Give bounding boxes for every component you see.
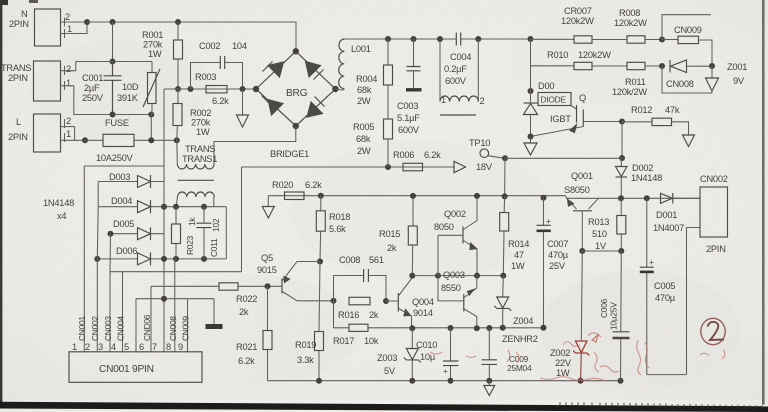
wire HV bus y39 bbox=[345, 38, 531, 40]
resistor R016 2k bbox=[338, 297, 379, 320]
wire pin4 bbox=[122, 272, 124, 352]
right scan edge line bbox=[763, 0, 764, 404]
ground arrow left of R020 bbox=[262, 196, 274, 218]
node R015 bottom / base bus bbox=[409, 273, 415, 279]
node D006 left on pin2 bbox=[94, 256, 100, 262]
border mark top-left bbox=[0, 0, 8, 5]
resistor R023 1k bbox=[172, 207, 198, 259]
node TP10 bbox=[502, 155, 508, 161]
wire varistor bottom to fuse node bbox=[150, 115, 152, 141]
diode D004 bbox=[98, 196, 164, 213]
red scribble marks bbox=[430, 333, 725, 381]
wire negative bus y167 bbox=[242, 166, 455, 168]
node bridge top bbox=[293, 48, 299, 54]
wire TRANS pin1 down bbox=[61, 86, 113, 115]
capacitor C004 0.2uF 600V bbox=[444, 33, 471, 87]
node Q001 base bottom bbox=[579, 248, 585, 254]
wire Q002 base column bbox=[438, 235, 464, 301]
node rail C009 bbox=[486, 378, 492, 384]
node D005 left on pin3 bbox=[108, 231, 114, 237]
node C001 bottom bbox=[110, 112, 116, 118]
node N junction bbox=[84, 19, 90, 25]
bridge rectifier BRG BRIDGE1 bbox=[256, 51, 335, 159]
node Z004 bottom bbox=[500, 325, 506, 331]
node R005 bottom bbox=[385, 164, 391, 170]
node fuse right bbox=[148, 137, 154, 143]
wire TRANS pin2 to node bbox=[61, 62, 153, 71]
node transformer primary left bbox=[174, 137, 180, 143]
wire pin5 ground link y298.7 bbox=[136, 298, 214, 300]
node zener column right bbox=[709, 63, 715, 69]
node C007 bottom bbox=[541, 325, 547, 331]
wire L pin2 stub bbox=[61, 127, 75, 141]
ground arrow after R012 bbox=[683, 135, 695, 147]
capacitor C003 5.1uF 600V bbox=[397, 39, 422, 135]
wire pin3/pin4 link y271.7 bbox=[110, 271, 242, 273]
connector CN-N (N 2PIN) bbox=[9, 9, 72, 46]
node Q003 collector bottom bbox=[474, 325, 480, 331]
label DIODE boxed bbox=[538, 93, 571, 106]
ground arrow below R003 bbox=[237, 89, 249, 127]
node C003 top bbox=[411, 36, 417, 42]
wire R012 node down bbox=[621, 122, 623, 159]
node Q002/Q003 base column bbox=[435, 273, 441, 279]
wire pin6 bbox=[150, 286, 152, 352]
wire zener loop bbox=[662, 66, 712, 93]
resistor R018 5.6k bbox=[316, 196, 350, 262]
capacitor C005 470u bbox=[640, 198, 676, 374]
node R003 right / gnd tap bbox=[240, 86, 246, 92]
wire L pin1 stub bbox=[61, 139, 86, 141]
arrow out (to IGBT emitter) bbox=[454, 161, 466, 172]
wire D006 row to loop corner bbox=[164, 258, 226, 260]
transistor Q001 S8050 bbox=[564, 171, 599, 251]
pin numbers 1-9 bbox=[72, 342, 183, 352]
node D002 anode / bus bbox=[618, 195, 624, 201]
capacitor C006 10u25V (rotated label) bbox=[599, 251, 630, 381]
node bridge right bbox=[332, 86, 338, 92]
resistor R011 120k/2W bbox=[592, 62, 662, 97]
node Q5 base / R021 bbox=[265, 283, 271, 289]
wire bridge bottom return to transformer bbox=[214, 126, 296, 164]
node base-bus right end bbox=[500, 273, 506, 279]
bottom scan bar bbox=[0, 402, 768, 412]
diode D00 bbox=[524, 81, 555, 137]
wire C005/CN002 bottom link bbox=[647, 374, 687, 376]
resistor R002 270k 1W bbox=[173, 89, 211, 140]
wire AC line bus to bridge top bbox=[87, 22, 296, 51]
diode LL of bridge bbox=[268, 100, 283, 116]
node R016 right / Q004 base bbox=[383, 298, 389, 304]
node bridge bottom bbox=[293, 123, 299, 129]
node bridge left bbox=[253, 86, 259, 92]
resistor R008 120k2W bbox=[592, 8, 662, 43]
jumper CN009 bbox=[662, 25, 712, 66]
node rail ground tap bbox=[161, 296, 167, 302]
wire 18V rail y196 bbox=[268, 195, 566, 197]
node Q002 collector bbox=[474, 193, 480, 199]
node C001 top bbox=[110, 59, 116, 65]
wire pin1 loop y166 bbox=[84, 165, 164, 167]
node coil pin1 bbox=[437, 36, 443, 42]
diode D001 1N4007 bbox=[653, 193, 700, 233]
wire pin8 bbox=[174, 259, 176, 352]
wire cathode rail x164 bbox=[163, 89, 165, 352]
resistor R020 6.2k bbox=[272, 180, 322, 200]
node C011 top bbox=[201, 204, 207, 210]
border mark top small bbox=[29, 0, 38, 3]
wire fuse to transformer bbox=[134, 139, 177, 141]
node R018 top bbox=[318, 193, 324, 199]
node rail/D006 bbox=[161, 256, 167, 262]
node R011 right bbox=[659, 63, 665, 69]
resistor R010 120k2W bbox=[531, 50, 612, 70]
node rail C006 bbox=[618, 378, 624, 384]
wire zener bus y327.8 bbox=[412, 327, 543, 329]
node R004 top bbox=[385, 36, 391, 42]
resistor R015 2k bbox=[379, 196, 417, 276]
capacitor C009 25M04 bbox=[482, 328, 532, 381]
diode LR of bridge bbox=[307, 102, 323, 117]
ground arrow below IGBT bbox=[524, 137, 537, 156]
transistor Q IGBT bbox=[531, 93, 623, 137]
node rail C010 bbox=[448, 378, 454, 384]
zener Z003 5V bbox=[377, 328, 421, 381]
node Q004 emitter/Z003 bbox=[409, 325, 415, 331]
wire D004 row to R023/C011 bbox=[164, 206, 226, 208]
node C007 top bbox=[541, 195, 547, 201]
node C005 top bbox=[644, 195, 650, 201]
wire CN002 pin2 bbox=[687, 228, 701, 375]
wire bottom link C001 to varistor bbox=[113, 114, 152, 116]
zener Z002 22V 1W (red marked) bbox=[550, 251, 589, 381]
resistor R012 47k bbox=[622, 105, 689, 135]
wire D003 left leg down bbox=[97, 182, 99, 207]
node HV bus / CR007 column bbox=[528, 36, 534, 42]
node rail/D004 bbox=[161, 204, 167, 210]
test point TP10 18V bbox=[469, 138, 505, 172]
capacitor C002 104 bbox=[191, 41, 247, 89]
wire pin3 bbox=[109, 234, 112, 352]
wire loop right side x226 bbox=[225, 207, 227, 259]
node R012 left bbox=[619, 119, 625, 125]
wire bottom rail y380.7 bbox=[268, 380, 622, 382]
node CN009 left bbox=[659, 37, 665, 43]
ground arrow below rail bbox=[484, 381, 495, 396]
zener Z004 ZENHR2 bbox=[494, 276, 538, 344]
chassis ground bar bbox=[206, 299, 223, 327]
wire drop to C001 bbox=[112, 22, 114, 62]
node IGBT emitter gnd bbox=[528, 134, 534, 140]
node C008/R016 left bbox=[331, 298, 337, 304]
diode UR of bridge bbox=[306, 62, 321, 78]
wire 18V bus y158 bbox=[505, 157, 622, 159]
node L junction bbox=[82, 137, 88, 143]
resistor R005 68k 2W bbox=[353, 119, 393, 167]
resistor R003 6.2k bbox=[195, 72, 229, 106]
transistor Q004 9014 bbox=[398, 278, 434, 329]
node C010 top bbox=[448, 325, 454, 331]
wire base link y251 bbox=[582, 250, 621, 252]
resistor R022 2k bbox=[151, 283, 282, 317]
resistor R019 3.3k bbox=[295, 262, 324, 381]
wire pin2 bbox=[96, 207, 99, 352]
node rail Z003 bbox=[409, 378, 415, 384]
resistor R006 6.2k bbox=[393, 150, 441, 171]
node D00 top bbox=[528, 88, 534, 94]
wire N pin1 stub bbox=[61, 22, 88, 34]
resistor R014 47 1W bbox=[500, 196, 530, 275]
diode D006 bbox=[97, 246, 164, 265]
capacitor C010 10u bbox=[416, 328, 459, 381]
transistor Q003 8550 bbox=[441, 270, 477, 329]
wire secondary right pin bbox=[213, 197, 215, 207]
node R013 bottom bbox=[618, 248, 624, 254]
diode D002 1N4148 bbox=[616, 158, 663, 198]
resistor CR007 120k2W bbox=[531, 6, 595, 43]
node rail R019 bbox=[316, 378, 322, 384]
node C009 top bbox=[486, 325, 492, 331]
wire HV column x530 bbox=[530, 39, 532, 102]
node C002 left leg bbox=[188, 86, 194, 92]
node R001/R002 bbox=[175, 86, 181, 92]
node C011 bottom bbox=[201, 256, 207, 262]
label 1N4148 x4 bbox=[43, 198, 74, 221]
transistor Q002 8050 bbox=[434, 196, 477, 276]
node R014 top column bbox=[502, 193, 508, 199]
border line left edge bbox=[0, 0, 2, 403]
diode CN008 bbox=[666, 60, 712, 89]
node TP bus right bbox=[619, 155, 625, 161]
capacitor C008 561 bbox=[334, 255, 387, 301]
wire mid rail y89 bbox=[164, 88, 256, 90]
wire L to fuse bbox=[85, 139, 103, 141]
ground arrow Z001 bbox=[706, 62, 748, 91]
node R023 bottom bbox=[173, 256, 179, 262]
node R015 top bbox=[410, 193, 416, 199]
red circled 2 stamp bbox=[701, 318, 725, 344]
fuse F1 10A250V bbox=[96, 118, 134, 163]
wire pin9 bbox=[187, 299, 189, 352]
resistor R021 6.2k bbox=[236, 286, 272, 380]
wire base to Q004 bbox=[386, 300, 398, 302]
transistor Q5 9015 bbox=[257, 253, 320, 301]
node bus x178 bbox=[175, 19, 181, 25]
node Q002 emitter / Q003 emitter bbox=[474, 273, 480, 279]
induction coil (pan coil) bbox=[440, 39, 485, 115]
wire stub up-right from node bbox=[662, 15, 711, 40]
node varistor bottom bbox=[148, 112, 154, 118]
wire N pin2 stub bbox=[61, 21, 88, 23]
node coil pin2 bbox=[475, 36, 481, 42]
wire riser x241.5 to negative bus bbox=[241, 167, 243, 272]
resistor R017 10k bbox=[333, 301, 412, 346]
inductor L001 bbox=[335, 39, 370, 90]
capacitor C001 bbox=[82, 62, 122, 115]
capacitor C011 102 bbox=[197, 207, 222, 259]
resistor R004 68k 2W bbox=[356, 39, 393, 119]
capacitor C007 470u 25V bbox=[537, 198, 569, 328]
wire base bus y275.6 bbox=[412, 275, 503, 277]
node Q5 emitter/R018/R019 bbox=[317, 259, 323, 265]
rotated pin labels CN001..CN009 bbox=[77, 314, 191, 341]
wire pin5 bbox=[135, 299, 137, 352]
diode UL of bridge bbox=[268, 62, 284, 77]
red tick near Z002 bbox=[592, 335, 598, 342]
resistor R001 270k 1W bbox=[142, 22, 183, 89]
node R023 top bbox=[173, 204, 179, 210]
node bus x112 bbox=[110, 19, 116, 25]
wire emitter bus joins rail bbox=[566, 196, 599, 198]
wire pin1 bbox=[83, 166, 85, 352]
wire secondary left pin bbox=[176, 197, 178, 207]
connector CN-TRANS (TRANS 2PIN) bbox=[1, 61, 71, 101]
node rail Z002 bbox=[578, 378, 584, 384]
diode D003 bbox=[98, 172, 164, 188]
wire TP column down bbox=[504, 158, 506, 196]
transformer TRANS1 bbox=[177, 140, 217, 197]
connector CN002 2PIN bbox=[700, 174, 728, 254]
connector CN001 9PIN box bbox=[69, 352, 202, 383]
varistor RV 10D391K bbox=[117, 62, 160, 115]
wire Q5 collector to R016 node bbox=[297, 300, 334, 302]
connector CN-L (L 2PIN) bbox=[8, 114, 71, 152]
diode D005 bbox=[111, 219, 165, 240]
resistor R013 510 1V bbox=[588, 198, 626, 251]
